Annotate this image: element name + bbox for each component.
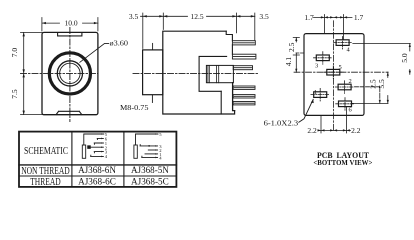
svg-text:NON THREAD: NON THREAD xyxy=(21,166,70,177)
svg-text:1.7: 1.7 xyxy=(354,13,364,22)
svg-text:AJ368-6C: AJ368-6C xyxy=(78,176,116,186)
svg-text:10.0: 10.0 xyxy=(64,19,77,28)
svg-text:2.2: 2.2 xyxy=(307,126,317,135)
svg-text:5.5: 5.5 xyxy=(377,79,386,89)
svg-text:5: 5 xyxy=(339,64,342,71)
svg-text:1.7: 1.7 xyxy=(304,13,314,22)
svg-text:AJ368-5N: AJ368-5N xyxy=(131,165,169,175)
svg-text:M8-0.75: M8-0.75 xyxy=(120,103,149,112)
svg-text:1: 1 xyxy=(314,89,317,96)
svg-text:2.5: 2.5 xyxy=(368,79,377,89)
svg-text:AJ368-5C: AJ368-5C xyxy=(131,176,169,186)
svg-text:2.5: 2.5 xyxy=(287,42,296,52)
svg-text:7.5: 7.5 xyxy=(10,89,19,99)
svg-text:12.5: 12.5 xyxy=(190,12,203,21)
svg-text:3.5: 3.5 xyxy=(129,12,139,21)
svg-text:ø3.60: ø3.60 xyxy=(110,38,129,47)
svg-text:SCHEMATIC: SCHEMATIC xyxy=(24,145,68,157)
svg-text:5.0: 5.0 xyxy=(400,53,409,63)
svg-text:THREAD: THREAD xyxy=(30,177,61,188)
svg-text:<BOTTOM VIEW>: <BOTTOM VIEW> xyxy=(313,159,372,167)
svg-text:7.0: 7.0 xyxy=(10,48,19,58)
svg-text:2.2: 2.2 xyxy=(351,126,361,135)
svg-text:AJ368-6N: AJ368-6N xyxy=(78,165,116,175)
svg-text:2: 2 xyxy=(349,78,352,85)
svg-text:3.5: 3.5 xyxy=(259,12,269,21)
svg-text:3: 3 xyxy=(315,62,318,69)
svg-text:4.1: 4.1 xyxy=(284,57,293,67)
svg-text:6-1.0X2.3: 6-1.0X2.3 xyxy=(264,119,299,128)
